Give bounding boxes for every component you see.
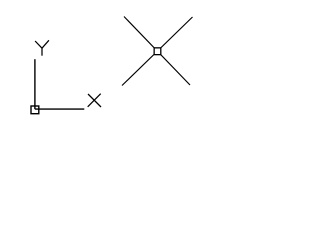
label Y xyxy=(35,40,49,55)
intersection marker square xyxy=(154,48,161,55)
label X xyxy=(88,94,101,107)
origin square xyxy=(31,106,39,114)
diagonal line 2 xyxy=(122,17,193,86)
Y axis line xyxy=(34,59,36,109)
X axis line xyxy=(35,108,84,110)
diagonal line 1 xyxy=(124,17,190,86)
